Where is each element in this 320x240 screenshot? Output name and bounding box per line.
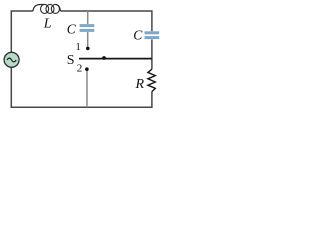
label C (middle) <box>67 22 77 37</box>
capacitor C (middle) <box>80 24 95 32</box>
svg-text:L: L <box>43 16 52 31</box>
wire: middle branch from top wire down to capacitor C <box>87 11 89 24</box>
svg-text:2: 2 <box>77 63 83 75</box>
label R <box>135 77 145 92</box>
wire: left side top segment and top-left corner <box>11 11 33 52</box>
label L <box>43 16 52 31</box>
inductor L <box>33 4 60 13</box>
switch S contact 1 (dot) <box>86 47 90 51</box>
label 2 <box>77 63 83 75</box>
svg-text:C: C <box>133 28 143 43</box>
wire: switch arm and wire to right branch <box>79 58 152 60</box>
switch S contact 2 (dot) <box>85 67 89 71</box>
svg-text:R: R <box>135 77 145 92</box>
label C (right) <box>133 28 143 43</box>
svg-text:C: C <box>67 22 77 37</box>
switch S pivot dot <box>102 56 106 60</box>
ac source <box>4 52 19 67</box>
svg-text:S: S <box>67 53 75 68</box>
wire: top from inductor to top-right corner, down to right capacitor <box>60 11 151 31</box>
svg-text:1: 1 <box>75 41 81 53</box>
capacitor C (right) <box>145 31 160 39</box>
wire: switch contact 2 down to bottom wire <box>86 70 88 107</box>
wire: middle capacitor to switch contact 1 <box>87 32 89 48</box>
wire: resistor bottom to bottom-right corner, bottom wire, left side up to source <box>11 67 152 107</box>
label 1 <box>75 41 81 53</box>
resistor R <box>148 69 155 91</box>
wire: right side between capacitor C and resistor R <box>151 39 153 69</box>
label S <box>67 53 75 68</box>
